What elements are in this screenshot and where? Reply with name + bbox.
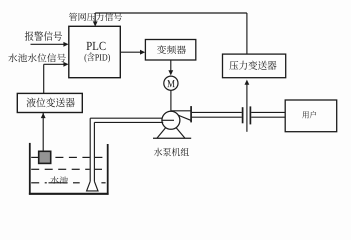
pipe: suction line from tank to pump (double line) [90, 117, 162, 119]
sensor: level probe (gray square) in tank [39, 151, 51, 163]
tank: water pool walls [29, 143, 31, 195]
pump P1 outlet nozzle [171, 110, 191, 112]
water surface dashes row 3 [31, 182, 105, 184]
pump P1: centrifugal pump circle [162, 111, 180, 129]
pipe fitting: suction foot strainer funnel [87, 181, 98, 191]
block U3: 压力变送器 (pressure transmitter) box [223, 54, 286, 78]
block: 用户 (user/consumer) box [285, 100, 337, 132]
node label: 水池 (water pool) [50, 176, 68, 183]
wire: inverter output down to motor [170, 60, 172, 71]
pipe: discharge line to valve (double line) [192, 111, 242, 113]
node label: 水池水位信号 (pool water-level signal) [8, 53, 66, 62]
wire: alarm signal into PLC [31, 43, 65, 45]
water surface dashes row 1 [31, 156, 102, 158]
wire: PLC output to inverter [120, 51, 141, 53]
water surface dashes row 2 [31, 168, 102, 170]
motor M1: circle with M [164, 76, 178, 90]
wire: level sensor up into level transmitter [42, 113, 44, 152]
node label: 报警信号 (alarm signal) [25, 31, 62, 41]
wire: pressure signal top run from pressure transmitter to PLC [246, 13, 248, 54]
pipe flange at pump outlet [190, 106, 192, 122]
pump P1 mount: triangle base [157, 128, 166, 139]
wire: motor shaft to pump [170, 90, 172, 111]
node label: 水泵机组 (pump unit) [154, 148, 189, 157]
pipe flange pair / coupling before user [242, 107, 244, 123]
block U2: 变频器 (frequency inverter) box [145, 40, 195, 61]
block U4: 液位变送器 (level transmitter) box [17, 93, 82, 112]
wire: pressure tap up to pressure transmitter [246, 84, 248, 132]
block U1: PLC (含PID) controller box [69, 26, 121, 77]
pipe: discharge line to user box (double line) [251, 111, 285, 113]
node label: 管网压力信号 (pipe-network pressure signal) [69, 13, 122, 21]
wire: water-level signal from level transmitter to PLC [44, 63, 64, 65]
